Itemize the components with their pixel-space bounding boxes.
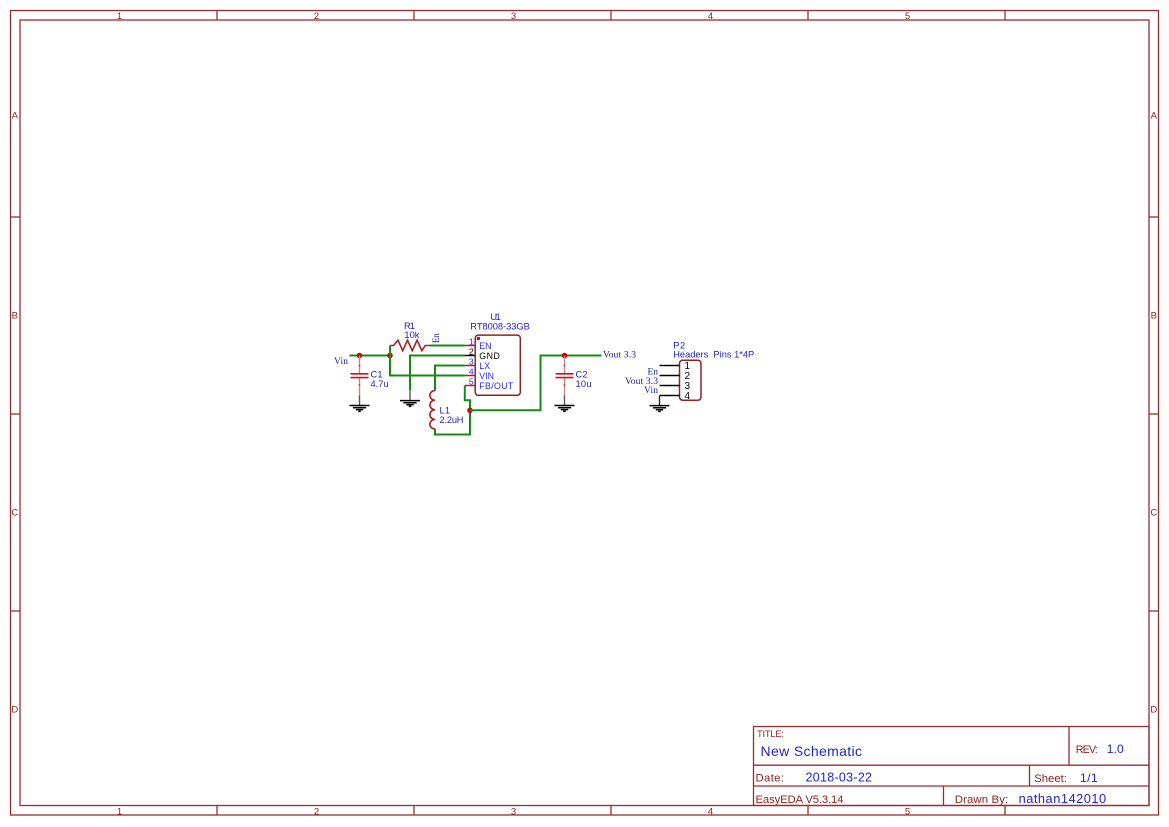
junction Vin/C1 (357, 353, 363, 359)
junction Vin/R1/VIN (387, 353, 393, 359)
pin 2 line (660, 375, 680, 377)
IC U1 (465, 335, 521, 395)
svg-text:Vout 3.3: Vout 3.3 (603, 351, 636, 361)
title block (754, 727, 1150, 806)
svg-text:1: 1 (117, 11, 122, 22)
wire R1 left lead down to VIN pin wire (390, 346, 465, 376)
junction Vout/C2 (562, 353, 568, 359)
svg-text:C: C (11, 508, 18, 519)
wire GND pin to ground (410, 356, 465, 391)
inductor L1 (430, 391, 435, 429)
ground (GND net) (400, 390, 420, 406)
svg-text:3: 3 (511, 11, 516, 22)
wire L1 bottom to junction (435, 410, 470, 434)
svg-text:1: 1 (469, 336, 474, 346)
svg-text:nathan142010: nathan142010 (1019, 791, 1107, 806)
pin 4 stub (465, 375, 475, 377)
pin 3 line (660, 385, 680, 387)
svg-text:4.7u: 4.7u (371, 379, 389, 389)
pin 1 line (660, 365, 680, 367)
svg-text:C2: C2 (576, 370, 588, 380)
svg-text:New Schematic: New Schematic (761, 743, 863, 759)
svg-text:Vin: Vin (644, 386, 658, 396)
capacitor C2 (556, 356, 574, 396)
wire LX pin to L1 top (435, 366, 465, 391)
svg-text:B: B (1151, 311, 1157, 322)
svg-text:2: 2 (469, 346, 474, 356)
svg-text:L1: L1 (440, 405, 451, 415)
svg-text:5: 5 (905, 806, 910, 817)
resistor R1 (390, 340, 430, 351)
svg-text:4: 4 (685, 391, 691, 402)
svg-text:Drawn By:: Drawn By: (955, 794, 1009, 806)
wire FB/OUT to junction (465, 386, 470, 411)
svg-text:5: 5 (905, 11, 910, 22)
svg-text:LX: LX (479, 361, 490, 371)
pin 1 stub (465, 345, 475, 347)
svg-text:2: 2 (314, 11, 319, 22)
ground (C1) (350, 395, 370, 411)
svg-text:4: 4 (708, 806, 713, 817)
svg-text:3: 3 (511, 806, 516, 817)
svg-text:D: D (11, 704, 18, 715)
svg-text:En: En (431, 333, 441, 343)
svg-text:5: 5 (469, 376, 474, 386)
svg-text:1: 1 (117, 806, 122, 817)
svg-text:2.2uH: 2.2uH (440, 415, 464, 425)
pin 4 line (660, 395, 680, 397)
svg-text:Headers Pins 1*4P: Headers Pins 1*4P (673, 349, 754, 359)
junction L1/FB/out (467, 408, 473, 414)
wire R1 to U1 pin 1 (430, 345, 465, 347)
svg-text:VIN: VIN (479, 371, 494, 381)
wire Vin rail (350, 355, 391, 357)
svg-text:REV:: REV: (1076, 744, 1098, 756)
svg-text:GND: GND (479, 351, 500, 361)
svg-text:1.0: 1.0 (1107, 742, 1124, 756)
svg-text:Date:: Date: (756, 773, 785, 785)
svg-text:En: En (648, 367, 659, 377)
svg-text:2: 2 (314, 806, 319, 817)
pin 2 stub (black) (465, 355, 475, 357)
svg-text:4: 4 (708, 11, 713, 22)
wire junction to Vout rail (470, 356, 601, 411)
svg-text:3: 3 (469, 356, 474, 366)
svg-text:2018-03-22: 2018-03-22 (806, 771, 873, 785)
svg-text:B: B (12, 311, 18, 322)
svg-text:4: 4 (469, 366, 474, 376)
svg-text:EN: EN (479, 341, 491, 351)
ground (P2 pin4) (650, 396, 670, 412)
svg-text:10u: 10u (576, 379, 592, 389)
ground (C2) (555, 395, 575, 411)
svg-text:EasyEDA V5.3.14: EasyEDA V5.3.14 (756, 794, 844, 806)
svg-text:1/1: 1/1 (1080, 771, 1098, 785)
svg-text:10k: 10k (404, 330, 419, 340)
svg-text:Sheet:: Sheet: (1034, 773, 1067, 785)
pin 3 stub (465, 365, 475, 367)
svg-text:Vin: Vin (334, 357, 348, 367)
svg-text:RT8008-33GB: RT8008-33GB (470, 321, 530, 331)
svg-text:C: C (1150, 508, 1157, 519)
pin 5 stub (465, 385, 475, 387)
svg-text:TITLE:: TITLE: (757, 729, 784, 739)
svg-text:A: A (12, 111, 19, 122)
capacitor C1 (351, 356, 369, 396)
svg-text:D: D (1150, 704, 1157, 715)
svg-text:FB/OUT: FB/OUT (479, 381, 514, 391)
svg-text:A: A (1151, 111, 1158, 122)
svg-text:C1: C1 (371, 370, 383, 380)
header P2 (660, 360, 702, 402)
